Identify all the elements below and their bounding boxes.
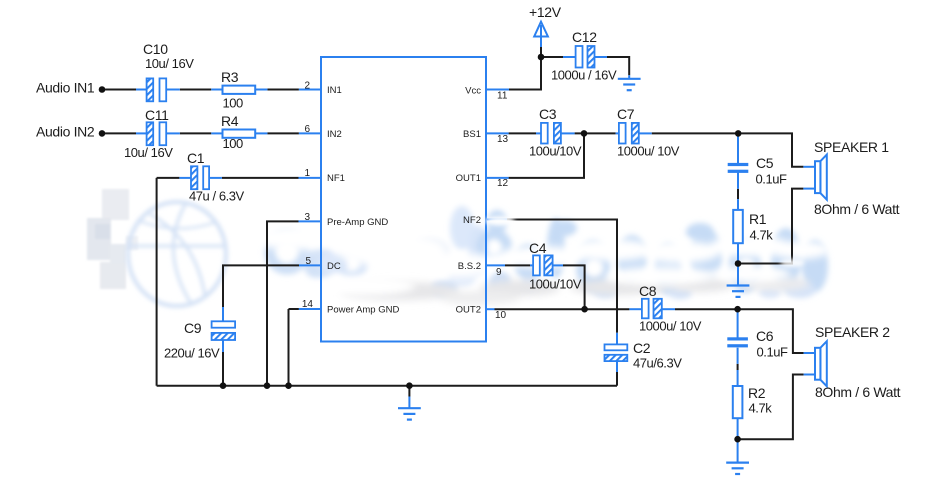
svg-text:SPEAKER 2: SPEAKER 2	[815, 324, 890, 340]
svg-text:C9: C9	[184, 320, 202, 336]
svg-text:100: 100	[223, 136, 244, 151]
svg-text:+12V: +12V	[529, 4, 562, 20]
svg-text:R2: R2	[748, 385, 766, 401]
svg-text:C7: C7	[617, 106, 635, 122]
svg-text:14: 14	[302, 299, 314, 310]
svg-text:OUT2: OUT2	[456, 305, 481, 316]
svg-text:C4: C4	[529, 240, 547, 256]
svg-text:OUT1: OUT1	[456, 173, 481, 184]
svg-text:BS1: BS1	[463, 129, 481, 140]
svg-text:SPEAKER 1: SPEAKER 1	[814, 139, 889, 155]
svg-text:C3: C3	[539, 106, 557, 122]
svg-text:C6: C6	[756, 328, 774, 344]
svg-text:NF1: NF1	[327, 173, 345, 184]
svg-text:100: 100	[223, 96, 244, 111]
svg-text:2: 2	[304, 81, 310, 92]
svg-text:100u/10V: 100u/10V	[529, 277, 582, 292]
svg-text:R4: R4	[221, 113, 239, 129]
svg-text:IN2: IN2	[327, 129, 342, 140]
svg-text:R1: R1	[749, 211, 767, 227]
svg-text:1000u/ 10V: 1000u/ 10V	[639, 319, 702, 334]
svg-text:11: 11	[497, 90, 508, 101]
svg-text:C10: C10	[143, 41, 168, 57]
svg-text:1000u/ 10V: 1000u/ 10V	[617, 144, 680, 159]
svg-text:C5: C5	[756, 155, 774, 171]
svg-text:4.7k: 4.7k	[749, 401, 773, 416]
svg-text:Pre-Amp GND: Pre-Amp GND	[327, 217, 388, 228]
svg-text:10u/ 16V: 10u/ 16V	[124, 145, 173, 160]
svg-text:B.S.2: B.S.2	[458, 261, 481, 272]
svg-text:47u/6.3V: 47u/6.3V	[633, 356, 682, 371]
svg-text:NF2: NF2	[463, 215, 481, 226]
svg-text:0.1uF: 0.1uF	[756, 172, 788, 187]
svg-text:Power Amp GND: Power Amp GND	[327, 305, 399, 316]
svg-text:10u/ 16V: 10u/ 16V	[145, 56, 194, 71]
svg-text:R3: R3	[221, 69, 239, 85]
svg-text:Audio IN2: Audio IN2	[36, 124, 95, 140]
svg-text:C11: C11	[145, 107, 169, 123]
svg-text:8Ohm / 6 Watt: 8Ohm / 6 Watt	[814, 201, 900, 217]
svg-text:Audio IN1: Audio IN1	[36, 80, 95, 96]
svg-text:10: 10	[495, 310, 507, 321]
svg-text:12: 12	[497, 178, 509, 189]
svg-text:3: 3	[304, 212, 310, 223]
svg-text:Vcc: Vcc	[465, 86, 481, 97]
svg-text:IN1: IN1	[327, 85, 342, 96]
svg-text:C8: C8	[639, 283, 657, 299]
svg-text:9: 9	[496, 267, 502, 278]
svg-text:0.1uF: 0.1uF	[757, 345, 789, 360]
svg-text:C1: C1	[187, 150, 205, 166]
svg-text:47u / 6.3V: 47u / 6.3V	[189, 189, 245, 204]
svg-text:1000u / 16V: 1000u / 16V	[551, 68, 617, 83]
svg-text:1: 1	[304, 168, 310, 179]
svg-text:C12: C12	[572, 29, 597, 45]
svg-text:6: 6	[304, 124, 310, 135]
svg-text:13: 13	[497, 134, 509, 145]
svg-text:C2: C2	[633, 340, 651, 356]
svg-text:8Ohm / 6 Watt: 8Ohm / 6 Watt	[815, 384, 901, 400]
svg-text:4.7k: 4.7k	[750, 228, 774, 243]
svg-text:100u/10V: 100u/10V	[529, 144, 582, 159]
svg-text:DC: DC	[327, 261, 341, 272]
svg-text:5: 5	[305, 256, 311, 267]
svg-text:220u/ 16V: 220u/ 16V	[164, 346, 220, 361]
